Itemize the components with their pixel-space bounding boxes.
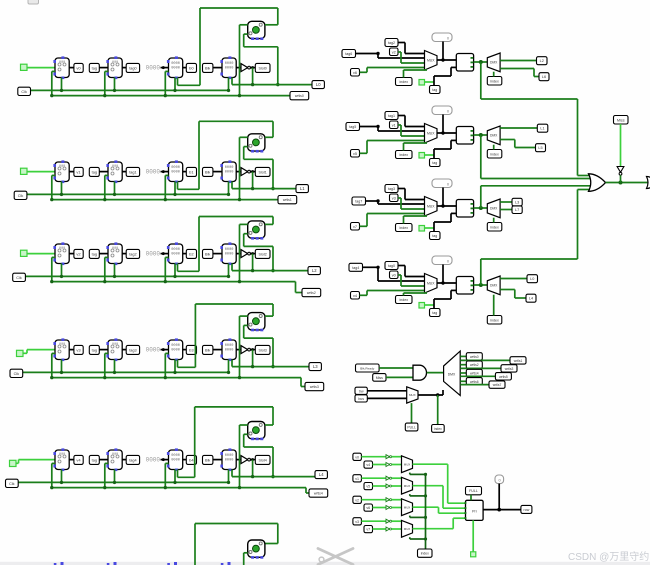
svg-text:v6: v6 (366, 506, 370, 510)
svg-text:Blk: Blk (205, 66, 210, 70)
svg-text:Clk: Clk (9, 482, 15, 486)
svg-text:Clk: Clk (18, 194, 24, 198)
svg-text:wrtls4: wrtls4 (314, 492, 323, 496)
svg-text:0000: 0000 (146, 456, 161, 463)
svg-text:Pri: Pri (472, 510, 477, 514)
svg-text:DMX: DMX (490, 284, 498, 288)
svg-text:Blk: Blk (205, 348, 210, 352)
svg-text:0000: 0000 (171, 253, 180, 257)
svg-text:Blk: Blk (205, 252, 210, 256)
svg-text:MUX: MUX (409, 393, 416, 397)
svg-text:wrtls2: wrtls2 (470, 363, 479, 367)
svg-text:Slot4: Slot4 (259, 458, 267, 462)
svg-text:L4: L4 (319, 472, 324, 477)
svg-text:v5: v5 (366, 485, 370, 489)
svg-text:0000: 0000 (171, 459, 180, 463)
svg-text:v5: v5 (353, 152, 357, 156)
svg-text:000: 000 (112, 61, 118, 65)
svg-text:0000: 0000 (146, 64, 161, 71)
svg-text:index: index (490, 318, 499, 322)
svg-text:0000: 0000 (225, 454, 234, 458)
svg-text:0000: 0000 (171, 344, 180, 348)
svg-text:L7: L7 (515, 208, 519, 212)
svg-text:FULL: FULL (469, 489, 478, 493)
svg-text:tag4: tag4 (129, 458, 136, 462)
svg-text:v3: v3 (355, 520, 359, 524)
svg-text:Clk: Clk (14, 372, 20, 376)
svg-text:index: index (399, 298, 408, 302)
svg-text:L2: L2 (540, 59, 544, 63)
svg-text:tag6: tag6 (345, 52, 352, 56)
svg-text:v0: v0 (392, 273, 396, 277)
svg-text:tag: tag (92, 348, 97, 352)
svg-text:tag: tag (432, 88, 437, 92)
svg-text:000: 000 (112, 247, 118, 251)
svg-text:MUX: MUX (404, 527, 410, 531)
svg-text:0000: 0000 (225, 67, 234, 71)
svg-text:L1: L1 (300, 186, 305, 191)
svg-text:L2: L2 (312, 268, 317, 273)
svg-text:MUX: MUX (427, 58, 435, 62)
svg-text:0000: 0000 (146, 346, 161, 353)
svg-text:0000: 0000 (171, 62, 180, 66)
svg-text:wrtls3: wrtls3 (310, 385, 319, 389)
svg-text:wrtls0: wrtls0 (295, 94, 304, 98)
svg-text:b3: b3 (189, 347, 194, 352)
svg-text:index: index (490, 152, 499, 156)
svg-text:0000: 0000 (225, 349, 234, 353)
svg-text:tag4: tag4 (352, 266, 359, 270)
svg-text:MUX: MUX (427, 131, 435, 135)
svg-text:000: 000 (59, 343, 65, 347)
svg-text:0000: 0000 (171, 67, 180, 71)
svg-text:0000: 0000 (171, 171, 180, 175)
svg-text:v7: v7 (353, 225, 357, 229)
svg-text:Blk: Blk (205, 458, 210, 462)
svg-text:tag: tag (92, 252, 97, 256)
svg-text:0000: 0000 (171, 349, 180, 353)
svg-text:wrtls5: wrtls5 (499, 375, 508, 379)
svg-text:DMX: DMX (448, 373, 456, 377)
svg-text:index: index (399, 80, 408, 84)
svg-text:MUX: MUX (427, 204, 435, 208)
svg-text:wrtls2: wrtls2 (307, 291, 316, 295)
svg-text:wrtls0: wrtls0 (470, 355, 479, 359)
svg-text:000: 000 (112, 343, 118, 347)
svg-text:0000: 0000 (171, 454, 180, 458)
svg-text:Clk: Clk (21, 90, 27, 94)
svg-text:tag3: tag3 (388, 187, 395, 191)
svg-text:DMX: DMX (490, 134, 498, 138)
svg-text:0000: 0000 (146, 250, 161, 257)
svg-text:tag: tag (432, 311, 437, 315)
svg-text:0000: 0000 (225, 171, 234, 175)
svg-text:Clk: Clk (16, 276, 22, 280)
svg-text:L5: L5 (538, 146, 542, 150)
svg-text:0000: 0000 (146, 168, 161, 175)
svg-text:index: index (490, 225, 499, 229)
svg-text:tag5: tag5 (349, 125, 356, 129)
svg-text:row: row (524, 508, 530, 512)
svg-text:000: 000 (59, 165, 65, 169)
svg-text:Miss: Miss (376, 376, 383, 380)
svg-text:v2: v2 (355, 498, 359, 502)
svg-text:v6: v6 (353, 71, 357, 75)
svg-text:000: 000 (112, 453, 118, 457)
svg-text:b1: b1 (189, 169, 194, 174)
svg-text:L1: L1 (540, 127, 544, 131)
svg-text:MUX: MUX (427, 281, 435, 285)
svg-text:MUX: MUX (404, 462, 410, 466)
svg-text:MUX: MUX (404, 505, 410, 509)
svg-text:tag1: tag1 (388, 114, 395, 118)
svg-text:DMX: DMX (490, 61, 498, 65)
svg-text:wrtls6: wrtls6 (470, 380, 479, 384)
svg-text:000: 000 (59, 453, 65, 457)
svg-text:tag3: tag3 (129, 348, 136, 352)
svg-text:bus: bus (358, 397, 364, 401)
svg-text:tag1: tag1 (129, 170, 136, 174)
svg-text:Slot0: Slot0 (259, 66, 267, 70)
svg-text:b0: b0 (189, 65, 194, 70)
svg-text:index: index (399, 226, 408, 230)
svg-text:tag0: tag0 (129, 66, 136, 70)
svg-text:L3: L3 (515, 201, 519, 205)
svg-text:v1: v1 (392, 123, 396, 127)
svg-text:index: index (399, 153, 408, 157)
svg-text:0000: 0000 (225, 248, 234, 252)
svg-text:Slot1: Slot1 (259, 170, 267, 174)
svg-text:v1: v1 (355, 477, 359, 481)
svg-text:wrtls4: wrtls4 (470, 372, 479, 376)
svg-text:tag2: tag2 (129, 252, 136, 256)
svg-text:L0: L0 (316, 82, 321, 87)
svg-text:PULL: PULL (407, 426, 416, 430)
svg-text:Miss: Miss (617, 118, 625, 122)
svg-text:L4: L4 (529, 297, 533, 301)
svg-text:v4: v4 (366, 463, 370, 467)
svg-text:v4: v4 (353, 294, 357, 298)
svg-text:Blk.Ready: Blk.Ready (360, 367, 375, 371)
svg-text:tag: tag (92, 66, 97, 70)
svg-text:0000: 0000 (171, 166, 180, 170)
svg-text:0000: 0000 (225, 253, 234, 257)
svg-text:CSDN @万里守约: CSDN @万里守约 (568, 550, 649, 563)
svg-text:L0: L0 (530, 277, 534, 281)
svg-text:Slot2: Slot2 (259, 252, 267, 256)
svg-text:wrtls1: wrtls1 (283, 198, 292, 202)
svg-text:000: 000 (112, 165, 118, 169)
svg-text:index: index (490, 79, 499, 83)
svg-text:tag2: tag2 (388, 41, 395, 45)
svg-text:0000: 0000 (225, 166, 234, 170)
svg-text:000: 000 (59, 61, 65, 65)
svg-text:000: 000 (59, 247, 65, 251)
svg-text:index: index (421, 552, 429, 556)
svg-text:wrtls1: wrtls1 (514, 359, 523, 363)
svg-text:Blk: Blk (205, 170, 210, 174)
svg-text:tag: tag (92, 458, 97, 462)
svg-text:Slot3: Slot3 (259, 348, 267, 352)
svg-text:b2: b2 (189, 251, 194, 256)
svg-text:tag7: tag7 (355, 200, 362, 204)
svg-text:MUX: MUX (404, 484, 410, 488)
svg-text:tag0: tag0 (388, 264, 395, 268)
svg-text:v3: v3 (392, 196, 396, 200)
svg-text:v0: v0 (355, 455, 359, 459)
svg-text:L3: L3 (313, 364, 318, 369)
svg-text:tag: tag (432, 161, 437, 165)
svg-text:trw: trw (359, 389, 364, 393)
svg-text:wrtls7: wrtls7 (493, 383, 502, 387)
svg-text:index: index (434, 427, 442, 431)
svg-text:0000: 0000 (225, 62, 234, 66)
svg-text:v2: v2 (392, 50, 396, 54)
svg-text:b4: b4 (189, 457, 194, 462)
svg-text:tag: tag (92, 170, 97, 174)
svg-text:0000: 0000 (171, 248, 180, 252)
svg-text:tag: tag (432, 234, 437, 238)
svg-text:L6: L6 (542, 75, 546, 79)
svg-text:0000: 0000 (225, 459, 234, 463)
svg-text:0000: 0000 (225, 344, 234, 348)
svg-text:wrtls3: wrtls3 (505, 367, 514, 371)
svg-text:v7: v7 (366, 528, 370, 532)
svg-text:DMX: DMX (490, 207, 498, 211)
